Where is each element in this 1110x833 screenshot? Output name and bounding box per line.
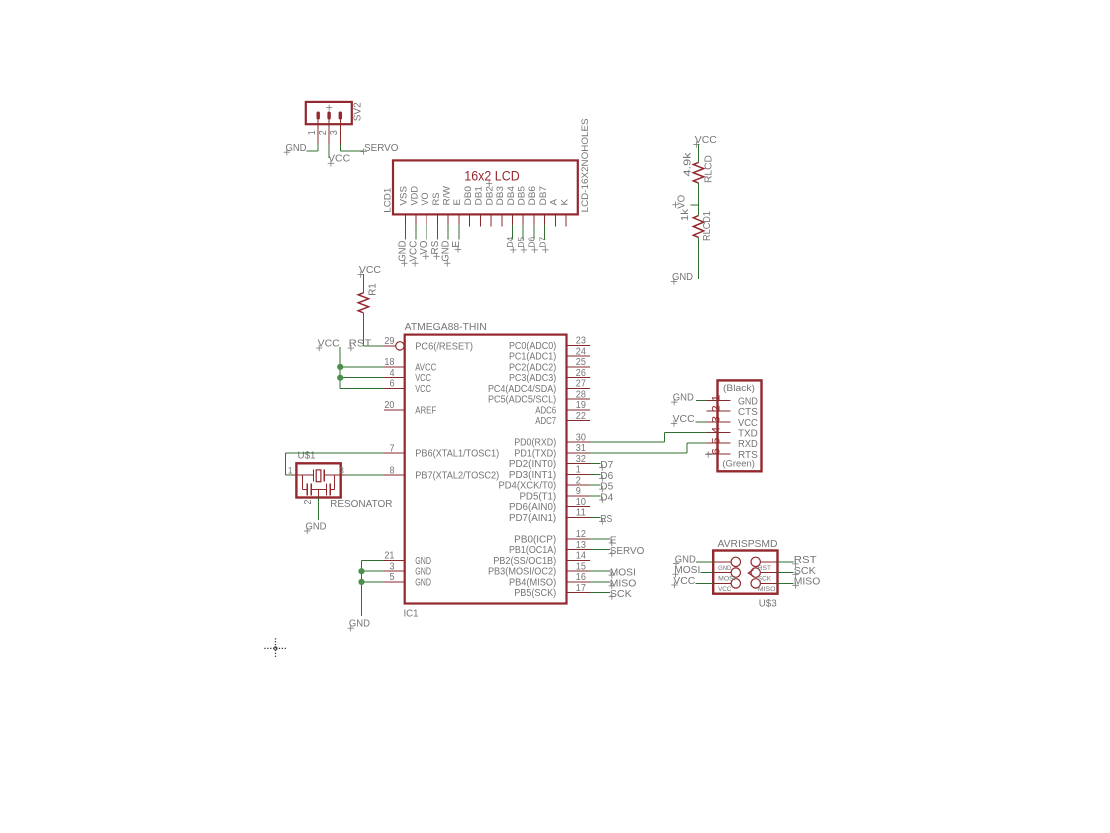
wire LCD pin DB6 stub (533, 225, 535, 240)
svg-text:LCD-16X2NOHOLES: LCD-16X2NOHOLES (580, 118, 591, 212)
node VO (672, 195, 698, 209)
wire IC stub SCK (590, 592, 610, 594)
svg-text:D6: D6 (527, 236, 537, 247)
svg-text:30: 30 (576, 432, 587, 443)
svg-text:6: 6 (389, 379, 395, 390)
wire LCD pin DB4 stub (512, 225, 514, 240)
svg-text:VCC: VCC (738, 418, 758, 429)
svg-text:GND: GND (415, 567, 431, 578)
node GND (LCD R/W) (440, 241, 451, 267)
svg-text:GND: GND (440, 241, 451, 262)
svg-text:2: 2 (303, 500, 314, 505)
node E (609, 535, 617, 546)
svg-text:1: 1 (307, 130, 318, 135)
wire LCD pin VO stub (426, 225, 428, 240)
node RST (ISP right) (792, 555, 816, 567)
svg-text:PD5(T1): PD5(T1) (519, 491, 556, 502)
svg-text:RS: RS (431, 193, 441, 206)
svg-text:3: 3 (339, 466, 344, 476)
connector SV2 (306, 102, 364, 145)
node VCC (LCD backlight) (693, 135, 717, 148)
svg-text:26: 26 (576, 368, 587, 379)
ground GND (resonator) (304, 521, 327, 534)
node VO (LCD VO) (419, 241, 430, 260)
wire LCD pin R/W stub (447, 225, 449, 240)
svg-text:7: 7 (389, 444, 394, 455)
resistor RLCD1 (680, 208, 713, 241)
svg-text:SERVO: SERVO (364, 143, 399, 154)
svg-text:D7: D7 (537, 236, 547, 247)
svg-text:D4: D4 (505, 236, 515, 247)
svg-text:PB1(OC1A): PB1(OC1A) (509, 545, 556, 556)
connector serial (Black/Green) (706, 380, 761, 471)
svg-text:4: 4 (389, 368, 395, 379)
wire VCC rail to AVCC/VCC pins (340, 347, 384, 388)
wire U$1 pin1 to IC XTAL1 (285, 453, 383, 475)
svg-text:RST: RST (758, 565, 771, 572)
wire IC stub RS (590, 516, 600, 518)
node GND (SV2 pin1) (284, 143, 307, 156)
wire IC stub E (590, 538, 610, 540)
svg-text:IC1: IC1 (404, 609, 419, 620)
svg-text:VO: VO (419, 241, 430, 255)
svg-text:4: 4 (710, 427, 722, 434)
svg-text:LCD1: LCD1 (382, 188, 392, 213)
svg-text:PB0(ICP): PB0(ICP) (514, 534, 556, 545)
wire GND to ISP (696, 561, 713, 563)
svg-text:PD3(INT1): PD3(INT1) (509, 470, 556, 481)
svg-text:GND: GND (415, 556, 431, 567)
wire VCC to RLCD (698, 144, 700, 162)
svg-text:3: 3 (389, 562, 395, 573)
origin cross (264, 638, 286, 658)
svg-text:SCK: SCK (758, 576, 772, 583)
svg-text:E: E (610, 535, 617, 546)
svg-text:1: 1 (710, 395, 722, 402)
svg-text:10: 10 (576, 497, 587, 508)
svg-text:20: 20 (384, 400, 395, 411)
svg-text:RLCD: RLCD (704, 155, 715, 183)
wire SV2 pin2 to VCC (328, 144, 330, 158)
svg-text:RXD: RXD (738, 439, 758, 450)
svg-text:22: 22 (576, 411, 586, 422)
wire LCD pin VDD stub (415, 225, 417, 240)
svg-text:14: 14 (576, 551, 587, 562)
svg-text:PC2(ADC2): PC2(ADC2) (509, 362, 556, 373)
node D4 (599, 492, 614, 503)
wire SCK to ISP (778, 572, 794, 574)
svg-text:VO: VO (676, 195, 687, 209)
svg-text:32: 32 (576, 454, 586, 465)
wire MISO to ISP (778, 582, 794, 584)
svg-text:VO: VO (420, 193, 430, 206)
svg-text:GND: GND (398, 241, 409, 262)
svg-text:SERVO: SERVO (610, 546, 645, 557)
wire VCC to ISP (696, 582, 714, 584)
svg-text:9: 9 (576, 486, 581, 497)
node D7 (LCD DB7) (537, 236, 548, 253)
svg-text:R/W: R/W (441, 186, 451, 206)
svg-text:2: 2 (576, 475, 581, 486)
svg-text:DB3: DB3 (495, 186, 505, 205)
junction VCC rail pin4 (337, 375, 343, 381)
svg-text:AREF: AREF (415, 405, 436, 416)
svg-text:MISO: MISO (758, 586, 776, 593)
svg-text:ADC7: ADC7 (535, 416, 556, 427)
wire LCD pin DB7 stub (544, 225, 546, 240)
svg-text:VDD: VDD (409, 186, 419, 206)
wire MOSI to ISP (701, 572, 714, 574)
svg-text:ATMEGA88-THIN: ATMEGA88-THIN (405, 322, 487, 333)
svg-text:SV2: SV2 (352, 102, 363, 121)
svg-text:4.9k: 4.9k (682, 151, 693, 176)
svg-text:RTS: RTS (738, 450, 758, 461)
svg-text:VSS: VSS (399, 186, 409, 206)
svg-text:VCC: VCC (408, 241, 419, 262)
svg-text:11: 11 (576, 508, 586, 519)
svg-text:PB3(MOSI/OC2): PB3(MOSI/OC2) (488, 567, 556, 578)
svg-text:1: 1 (288, 466, 293, 476)
svg-text:VCC: VCC (415, 384, 431, 395)
svg-text:E: E (452, 199, 462, 206)
ground GND (backlight) (671, 272, 693, 285)
node SERVO (609, 546, 645, 557)
svg-text:SCK: SCK (610, 589, 632, 600)
node VCC (serial) (671, 414, 695, 427)
svg-text:VCC: VCC (718, 586, 731, 593)
node GND (serial) (671, 393, 694, 406)
svg-text:RLCD1: RLCD1 (702, 211, 713, 241)
node VCC (LCD VDD) (408, 241, 419, 267)
wire IC PD1 to serial RXD (590, 443, 706, 453)
wire IC stub D6 (590, 473, 600, 475)
svg-text:17: 17 (576, 583, 586, 594)
svg-text:E: E (451, 240, 462, 247)
wire U$1 pin2 to GND (317, 497, 319, 520)
node VCC (above R1) (358, 265, 381, 278)
svg-text:2: 2 (318, 130, 329, 135)
svg-text:DB1: DB1 (474, 186, 484, 206)
svg-text:PC0(ADC0): PC0(ADC0) (509, 341, 556, 352)
ic IC1 ATMEGA88-THIN (384, 322, 590, 619)
svg-text:PD6(AIN0): PD6(AIN0) (509, 502, 556, 513)
wire RLCD1 to GND (698, 237, 700, 279)
svg-text:18: 18 (384, 357, 395, 368)
svg-text:PB2(SS/OC1B): PB2(SS/OC1B) (493, 556, 556, 567)
svg-text:13: 13 (576, 540, 587, 551)
wire RLCD to RLCD1 (698, 183, 700, 216)
node GND (ISP left) (673, 555, 696, 567)
svg-text:PB6(XTAL1/TOSC1): PB6(XTAL1/TOSC1) (415, 449, 499, 460)
node MISO (ISP right) (792, 577, 820, 589)
wire U$1 pin3 to IC XTAL2 (346, 474, 384, 476)
ground GND (IC) (347, 619, 370, 632)
svg-text:D5: D5 (516, 236, 526, 247)
svg-text:28: 28 (576, 389, 587, 400)
svg-text:PB5(SCK): PB5(SCK) (514, 588, 556, 599)
svg-text:MOSI: MOSI (610, 568, 636, 579)
svg-text:25: 25 (576, 357, 587, 368)
wire GND rail to GND pins (362, 560, 384, 616)
svg-text:PD1(TXD): PD1(TXD) (514, 448, 556, 459)
node MISO (609, 578, 637, 589)
svg-text:16: 16 (576, 572, 587, 583)
svg-text:GND: GND (718, 565, 731, 572)
wire GND to serial pin1 (696, 399, 707, 401)
wire IC stub D4 (590, 495, 600, 497)
svg-text:R1: R1 (368, 283, 379, 296)
node RS (599, 514, 612, 525)
wire IC stub D7 (590, 463, 600, 465)
svg-text:AVCC: AVCC (415, 362, 436, 373)
svg-text:CTS: CTS (738, 407, 758, 418)
svg-text:19: 19 (576, 400, 586, 411)
svg-text:A: A (549, 198, 559, 205)
node D6 (599, 471, 614, 482)
svg-text:DB6: DB6 (527, 186, 537, 206)
wire IC stub SERVO (590, 549, 610, 551)
wire R1 to RST node (363, 313, 383, 346)
wire VCC to serial pin3 (695, 421, 706, 423)
svg-text:31: 31 (576, 443, 586, 454)
node D7 (599, 460, 614, 471)
resonator U$1 (288, 450, 393, 510)
node SCK (609, 589, 632, 600)
svg-text:5: 5 (389, 572, 395, 583)
svg-text:DB7: DB7 (538, 186, 548, 206)
wire IC stub MOSI (590, 570, 610, 572)
svg-text:K: K (559, 198, 569, 205)
svg-text:PB7(XTAL2/TOSC2): PB7(XTAL2/TOSC2) (415, 470, 499, 481)
node VCC (IC power) (316, 338, 340, 351)
svg-text:5: 5 (710, 437, 722, 444)
resistor RLCD (682, 151, 714, 183)
svg-text:24: 24 (576, 346, 587, 357)
svg-text:DB2: DB2 (484, 186, 494, 206)
junction GND rail pin3 (358, 568, 364, 574)
svg-text:PC6(/RESET): PC6(/RESET) (415, 341, 473, 352)
wire LCD pin DB5 stub (522, 225, 524, 240)
svg-text:(Black): (Black) (723, 383, 755, 394)
svg-text:3: 3 (710, 416, 722, 423)
node SERVO (SV2 pin3) (360, 143, 398, 155)
svg-text:8: 8 (389, 465, 395, 476)
svg-text:U$1: U$1 (298, 450, 316, 461)
wire SV2 pin3 to SERVO (340, 144, 363, 151)
resistor R1 (358, 283, 379, 313)
wire IC PD0 to serial TXD (590, 433, 706, 443)
node VCC (ISP left) (671, 576, 695, 588)
svg-text:MISO: MISO (610, 578, 637, 589)
wire LCD pin VSS stub (404, 225, 406, 240)
svg-text:15: 15 (576, 561, 587, 572)
svg-text:SCK: SCK (794, 566, 816, 577)
junction VCC rail pin18 (337, 364, 343, 370)
wire LCD pin E stub (458, 225, 460, 240)
node RST (348, 338, 372, 351)
svg-text:1: 1 (576, 465, 581, 476)
node RS (LCD RS) (430, 240, 441, 259)
svg-text:VCC: VCC (415, 373, 431, 384)
svg-text:PC4(ADC4/SDA): PC4(ADC4/SDA) (488, 384, 556, 395)
node RTS stub (705, 451, 711, 457)
node GND (LCD VSS) (398, 241, 409, 267)
svg-text:29: 29 (384, 336, 394, 347)
wire IC stub MISO (590, 581, 610, 583)
svg-text:1k: 1k (680, 208, 691, 221)
svg-text:RESONATOR: RESONATOR (330, 499, 392, 510)
wire LCD pin RS stub (436, 225, 438, 240)
svg-text:3: 3 (329, 130, 340, 136)
svg-text:DB5: DB5 (517, 186, 527, 206)
svg-text:PB4(MISO): PB4(MISO) (509, 577, 556, 588)
svg-text:PC3(ADC3): PC3(ADC3) (509, 373, 556, 384)
junction GND rail pin5 (358, 579, 364, 585)
svg-text:PD2(INT0): PD2(INT0) (509, 459, 556, 470)
node VCC (SV2 pin2) (328, 154, 350, 167)
svg-text:2: 2 (710, 405, 722, 412)
svg-text:DB4: DB4 (506, 186, 516, 206)
svg-text:PD0(RXD): PD0(RXD) (514, 438, 556, 449)
lcd module LCD1 16x2 (382, 118, 591, 226)
svg-text:PD7(AIN1): PD7(AIN1) (509, 513, 556, 524)
svg-text:RST: RST (794, 555, 817, 566)
connector U$3 AVRISPSMD (713, 539, 777, 609)
svg-text:TXD: TXD (738, 429, 758, 440)
node D4 (LCD DB4) (505, 236, 516, 253)
svg-text:MISO: MISO (794, 577, 821, 588)
svg-text:21: 21 (384, 551, 394, 562)
svg-text:GND: GND (738, 396, 758, 407)
svg-text:AVRISPSMD: AVRISPSMD (718, 539, 778, 550)
svg-text:PC5(ADC5/SCL): PC5(ADC5/SCL) (488, 395, 556, 406)
wire IC stub D5 (590, 484, 600, 486)
svg-text:RS: RS (430, 240, 441, 254)
svg-text:16x2 LCD: 16x2 LCD (464, 168, 520, 183)
svg-text:ADC6: ADC6 (535, 405, 556, 416)
node MOSI (609, 568, 636, 579)
svg-text:12: 12 (576, 529, 586, 540)
svg-text:23: 23 (576, 336, 587, 347)
svg-text:U$3: U$3 (759, 598, 777, 609)
svg-text:GND: GND (415, 577, 431, 588)
node SCK (ISP right) (792, 566, 816, 578)
wire SV2 pin1 to GND (307, 144, 319, 151)
svg-text:6: 6 (710, 448, 722, 455)
node E (LCD E) (451, 240, 462, 252)
wire RST to ISP (778, 561, 794, 563)
wire VCC to R1 (362, 274, 364, 293)
node D5 (LCD DB5) (516, 236, 527, 253)
svg-text:PD4(XCK/T0): PD4(XCK/T0) (498, 481, 556, 492)
node D5 (599, 482, 614, 493)
node D6 (LCD DB6) (527, 236, 538, 253)
svg-text:27: 27 (576, 379, 586, 390)
svg-text:PC1(ADC1): PC1(ADC1) (509, 352, 556, 363)
node MOSI (ISP left) (672, 565, 700, 577)
svg-text:MOSI: MOSI (718, 576, 736, 583)
svg-text:DB0: DB0 (463, 186, 473, 206)
